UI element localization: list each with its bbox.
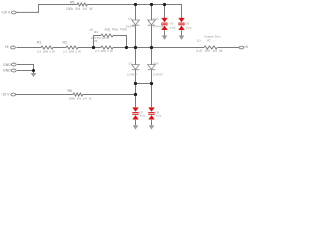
svg-text:1N4007: 1N4007 [153,72,164,76]
svg-text:1N4007: 1N4007 [127,72,138,76]
svg-text:(1): (1) [197,38,201,42]
svg-text:R1: R1 [37,41,42,45]
svg-text:1N4448: 1N4448 [126,25,137,29]
svg-text:2.7 10% 1 W: 2.7 10% 1 W [95,49,113,53]
svg-text:D2: D2 [129,62,133,66]
svg-text:GND: GND [3,68,11,72]
svg-text:D4A: D4A [153,62,159,66]
svg-text:R7: R7 [207,38,211,42]
svg-text:TVS: TVS [156,114,162,118]
svg-text:R3: R3 [94,39,98,43]
svg-text:2.2 10% 1 W: 2.2 10% 1 W [63,50,81,54]
svg-text:R4: R4 [94,30,98,34]
svg-text:R5: R5 [70,0,75,4]
svg-text:Adj. fine Trim: Adj. fine Trim [105,27,128,31]
svg-text:-15 V: -15 V [1,93,10,97]
svg-text:TVS: TVS [170,26,176,30]
svg-text:GND: GND [3,63,11,67]
svg-text:D1: D1 [129,17,133,21]
svg-text:(2): (2) [90,27,94,31]
svg-text:100k 5% 1/4 W: 100k 5% 1/4 W [66,7,92,11]
svg-text:1N4448: 1N4448 [153,25,164,29]
svg-text:+15 V: +15 V [1,11,11,15]
svg-text:HI: HI [245,45,249,49]
svg-text:R2: R2 [63,41,68,45]
svg-text:2.2 10% 1 W: 2.2 10% 1 W [37,50,55,54]
svg-text:180k 5% 1/4 W: 180k 5% 1/4 W [69,97,92,101]
svg-text:D3A: D3A [153,17,159,21]
svg-text:0.47 5% 1/4 W: 0.47 5% 1/4 W [197,49,223,53]
svg-text:TVS: TVS [186,26,192,30]
svg-text:R6: R6 [68,89,73,93]
svg-text:TVS: TVS [140,114,146,118]
svg-text:HI: HI [5,45,9,49]
